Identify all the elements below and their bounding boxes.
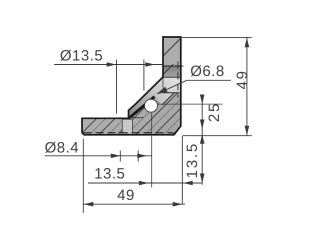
arrow Dia 8.4 right <box>137 154 147 159</box>
arrow right 25 bottom <box>200 120 205 130</box>
45-degree counterbore face (light band) <box>129 77 181 118</box>
leader underline Dia 6.8 <box>187 79 231 81</box>
dimension line Dia 13.5 <box>54 64 163 66</box>
svg-text:13.5: 13.5 <box>94 165 125 182</box>
face boundary at arm edge <box>162 77 164 93</box>
extension tick right of Dia 8.4 <box>137 151 139 162</box>
extension line right of bottom 49 and 13.5 <box>181 136 183 205</box>
dimension line bottom 49 <box>83 203 185 205</box>
arrow Dia 13.5 left <box>107 62 117 67</box>
dimension line bottom 13.5 <box>88 182 202 184</box>
bracket outline <box>82 37 181 135</box>
arrow bottom 49 left <box>84 202 94 207</box>
dimension line right 25 and right 13.5 <box>201 96 203 185</box>
arrow right 49 bottom <box>245 126 250 136</box>
arrow Dia 8.4 left <box>111 154 121 159</box>
dimension line right 49 <box>246 37 248 135</box>
svg-text:49: 49 <box>234 69 251 89</box>
step block bottom edge <box>129 117 144 119</box>
extension tick left of Dia 8.4 <box>119 151 121 162</box>
counterbore wall top edge on vertical arm <box>163 65 183 67</box>
arrow right 25 top <box>200 95 205 105</box>
svg-text:13.5: 13.5 <box>184 142 201 178</box>
counterbore shoulder line on vertical arm <box>163 92 180 94</box>
hidden slot dashed line in bottom arm <box>84 132 174 134</box>
arrow bottom 13.5 right <box>183 181 193 186</box>
arrow bottom 13.5 left <box>139 181 149 186</box>
section hatching <box>75 25 301 140</box>
extension line top of right 49 <box>181 36 252 38</box>
leader arrow Dia 6.8 <box>156 87 167 94</box>
arrow right 13.5 bottom <box>200 174 205 184</box>
arrow bottom 49 right <box>173 202 183 207</box>
extension line right of Dia 13.5 <box>143 60 145 91</box>
svg-text:Ø13.5: Ø13.5 <box>60 47 103 64</box>
arrow right 49 top <box>245 38 250 48</box>
counterbore far lip diagonal edge <box>162 93 174 105</box>
extension line bottom of right 49 <box>183 135 252 137</box>
svg-text:49: 49 <box>117 187 135 204</box>
arrow right 13.5 top <box>200 134 205 144</box>
hole centerline vertical <box>151 113 153 188</box>
svg-text:Ø8.4: Ø8.4 <box>45 139 80 156</box>
counterbore wall dark band across vertical arm <box>163 66 181 77</box>
extension line left of bottom 49 <box>82 139 84 213</box>
counterbore lip thick diagonal edge <box>129 97 155 119</box>
hidden hole dashed line in vertical arm <box>177 62 179 98</box>
hole centerline horizontal <box>158 103 223 105</box>
core hole circle <box>145 99 158 112</box>
svg-text:Ø6.8: Ø6.8 <box>190 63 225 80</box>
svg-text:25: 25 <box>206 102 223 122</box>
leader line Dia 6.8 <box>158 80 187 93</box>
arrow Dia 13.5 right <box>145 62 155 67</box>
extension line left of Dia 13.5 <box>116 60 118 114</box>
angle bracket body cross-section <box>82 37 181 135</box>
bolt hole void strip in bottom arm <box>122 119 132 133</box>
dimension line Dia 8.4 <box>45 155 152 157</box>
counterbore wall bottom edge on vertical arm <box>163 76 181 78</box>
